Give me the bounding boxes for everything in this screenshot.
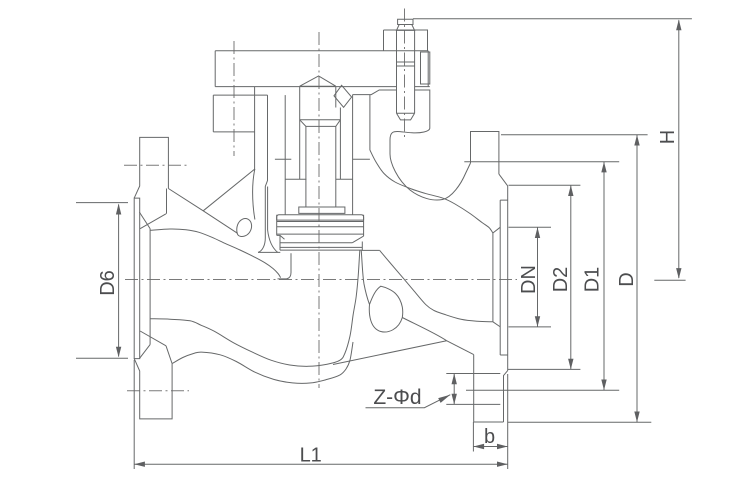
right flange back chamfer bottom (504, 371, 508, 422)
dimension b extension line (472, 422, 474, 452)
svg-text:Z-Φd: Z-Φd (373, 386, 421, 409)
svg-text:DN: DN (518, 265, 540, 294)
guide house taper (300, 120, 341, 127)
chamber wall right outer (369, 95, 371, 150)
left flange hub bore chamfer top (139, 212, 150, 229)
bolt B1 shank (397, 30, 415, 120)
dimension DN line (537, 227, 539, 327)
rib gusset edge 1 (168, 189, 237, 234)
dimension H extension line (413, 18, 692, 20)
left flange upper bolt-hole centerline (124, 164, 189, 166)
left bonnet bolt centerline (233, 41, 235, 156)
right flange bottom tab (474, 355, 504, 422)
left flange hub bore vertical (149, 229, 151, 345)
body flange plate left (213, 87, 267, 170)
left flange raised face plate (134, 198, 140, 359)
main horizontal axis centerline (125, 279, 517, 281)
svg-text:D6: D6 (97, 270, 119, 296)
dimension DN arrows (535, 227, 540, 327)
left flange top tab (134, 137, 168, 198)
tilted guide stop (334, 85, 352, 107)
rib hub bowed edge (253, 169, 255, 220)
svg-text:D1: D1 (582, 267, 604, 293)
svg-text:H: H (657, 130, 679, 144)
disc guide house walls (285, 86, 352, 179)
dimension D2 arrows (568, 185, 573, 369)
dimension D line (636, 135, 638, 422)
svg-text:D: D (616, 272, 638, 286)
seat fillet left (258, 230, 278, 252)
dimension D6 arrows (116, 204, 121, 358)
dimension H tick (654, 279, 685, 281)
bolt B1 chamfer (397, 25, 415, 31)
chamber wall left outer (265, 95, 267, 238)
seat wall left (278, 253, 292, 279)
right flange bore chamfer bottom (493, 322, 500, 327)
right passage bore bottom P3 (380, 250, 493, 321)
left flange bottom tab (134, 359, 172, 419)
left flange hub bore chamfer bottom (139, 345, 150, 359)
seat ledge right (362, 249, 380, 251)
web teardrop (369, 286, 402, 332)
dimension D6 line (118, 205, 120, 357)
rib gusset edge 2 (203, 169, 255, 211)
right flange bore vertical (492, 233, 494, 322)
left flange hub cone bottom (140, 331, 172, 364)
disc guide house roof (300, 76, 336, 86)
packing tick right (353, 158, 370, 160)
bottom shell diagonal 2 (447, 341, 474, 355)
dimension D2 line (570, 185, 572, 369)
left passage bore bottom curve P1 (150, 250, 360, 366)
washer lug (421, 52, 430, 84)
svg-text:L1: L1 (300, 444, 322, 466)
disc top slab (277, 215, 364, 220)
disc right chamfer (352, 236, 363, 250)
dimension d hole arrows (452, 374, 457, 405)
right flange raised face (507, 186, 509, 371)
left passage bore top curve C1 (150, 229, 281, 278)
label Z-Phi-d leader (366, 395, 451, 408)
dimension H arrows (676, 20, 681, 279)
bolt centerline (404, 9, 406, 141)
bottom shell diagonal 1 (333, 341, 447, 365)
boss undercut curve A outer shell (390, 129, 471, 201)
inner bore curve B right passage ceiling (370, 150, 493, 233)
dimension L1 line (134, 463, 508, 465)
label Z-Phi-d leader arrow (438, 395, 450, 403)
bolt B1 thread band (397, 62, 415, 66)
disc inner contour (280, 242, 352, 244)
packing tick left (275, 158, 291, 160)
disc body sides (277, 215, 364, 236)
right flange bolt hole (446, 374, 500, 405)
bolt B1 cap (398, 19, 413, 24)
seat ledge left (258, 251, 280, 253)
right flange back chamfer top (499, 174, 508, 186)
stem washer plate (299, 207, 345, 213)
seat wall right (361, 250, 369, 304)
nut N1 (384, 30, 428, 51)
bonnet cover plate (215, 51, 430, 87)
dimension D1 line (603, 162, 605, 391)
dimension d hole line (453, 374, 455, 405)
bottom outer shell curve P2 (172, 342, 353, 383)
svg-text:D2: D2 (550, 267, 572, 293)
body flange right / bolt boss (353, 90, 430, 129)
right flange top tab (471, 132, 499, 175)
svg-text:b: b (484, 426, 495, 448)
dimension D1 arrows (601, 162, 606, 391)
dimension b line (473, 446, 507, 448)
dimension D6 extension lines (76, 203, 128, 359)
rib foot lug (237, 219, 252, 237)
dimension D2 extension lines (508, 185, 581, 369)
valve stem (306, 126, 336, 207)
right passage outer lower wall (402, 318, 446, 341)
dimension D extension lines (501, 135, 651, 422)
right flange bore chamfer top (493, 227, 500, 233)
chamber wall right inner (352, 95, 354, 215)
dimension DN extension lines (509, 227, 552, 327)
chamber wall left inner (284, 95, 286, 215)
main vertical axis centerline (318, 32, 320, 388)
right flange joint line (500, 200, 508, 355)
dimension b arrows (473, 444, 507, 449)
dimension L1 arrows (134, 462, 508, 467)
disc notch step (277, 235, 285, 250)
disc bottom slab (280, 247, 362, 250)
dimension L1 extension lines (134, 360, 508, 469)
dimension D1 extension lines (464, 162, 619, 391)
left flange hub cone top (140, 189, 166, 229)
left flange lower bolt-hole centerline (127, 390, 189, 392)
dimension H line (678, 20, 680, 278)
dimension D arrows (634, 135, 639, 422)
disc ring lines (277, 222, 364, 235)
